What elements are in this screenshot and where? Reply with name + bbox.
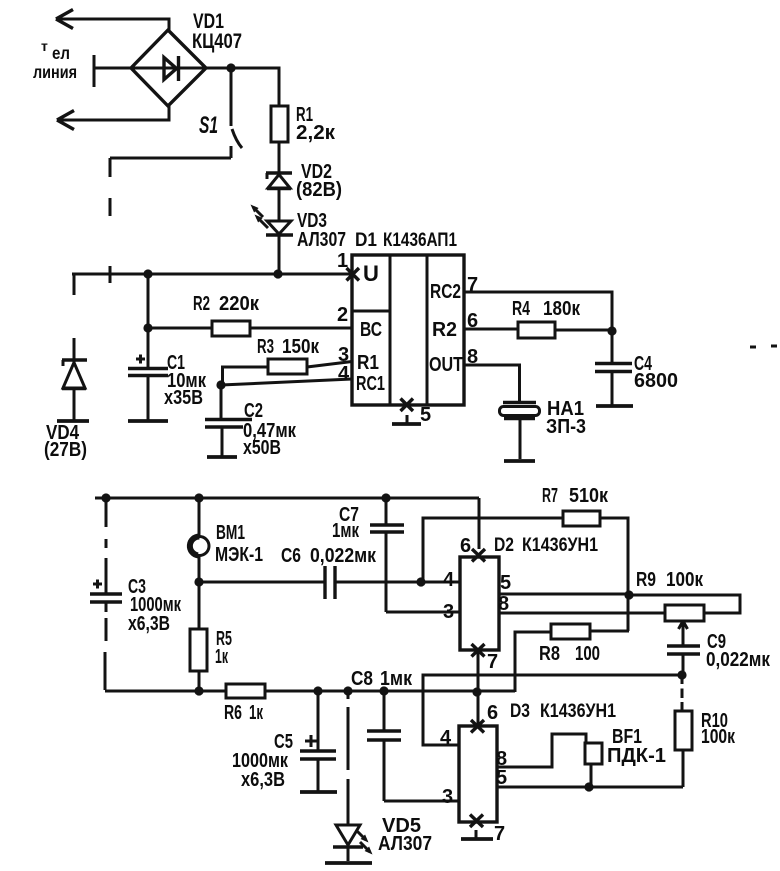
ground stub VD4	[57, 419, 89, 423]
label C7 1мк	[332, 504, 360, 542]
label R6 1k	[224, 702, 264, 724]
line terminal arrow (lower)	[57, 106, 169, 130]
svg-text:2,2к: 2,2к	[296, 122, 336, 144]
resistor R4	[518, 322, 555, 338]
svg-text:R9: R9	[636, 569, 656, 591]
LED VD5	[333, 691, 373, 861]
svg-text:МЭК-1: МЭК-1	[215, 544, 263, 566]
svg-text:S1: S1	[199, 112, 218, 139]
wire R4 to C4 node	[555, 329, 612, 332]
svg-text:R1: R1	[357, 352, 379, 374]
label C3 1000мк х6,3В	[128, 576, 182, 635]
svg-text:R6: R6	[224, 702, 242, 724]
svg-text:D2: D2	[494, 534, 514, 556]
svg-text:7: 7	[494, 823, 505, 845]
svg-text:ВС: ВС	[360, 319, 382, 341]
label R4 180k	[512, 298, 581, 320]
label VD2 (82В)	[296, 161, 342, 201]
label C9 0.022мк	[706, 631, 771, 671]
ground stub C1	[128, 419, 168, 423]
capacitor C6	[325, 566, 335, 599]
svg-text:100: 100	[575, 643, 600, 665]
bridge rectifier VD1	[131, 30, 206, 106]
wire pin 7 to C4 node	[464, 292, 612, 331]
svg-text:R7: R7	[542, 485, 558, 507]
wire R2 left	[148, 327, 212, 330]
wire pin 8 of D2 to R9	[499, 612, 665, 615]
wire lower top rail	[95, 497, 479, 500]
wire junction to pin 4	[221, 379, 352, 385]
node VD5	[343, 686, 352, 695]
node C1 branch junction	[143, 269, 152, 278]
capacitor C9	[667, 646, 700, 675]
pin 6 mark D3	[471, 702, 498, 733]
svg-text:R8: R8	[539, 643, 560, 665]
svg-text:4: 4	[443, 569, 455, 591]
label R8 100	[539, 643, 600, 665]
capacitor C4	[595, 331, 632, 405]
pin 7 mark D3	[470, 815, 505, 846]
svg-text:220к: 220к	[219, 293, 260, 315]
wire R7 right leg down	[600, 518, 628, 631]
wire R1 to VD2	[278, 142, 281, 174]
svg-text:ЗП-3: ЗП-3	[546, 416, 586, 438]
amplifier D2	[460, 557, 499, 650]
wire R7 feedback left leg	[423, 518, 563, 582]
line terminal arrow (upper)	[56, 10, 169, 31]
node bridge plus	[226, 63, 235, 72]
node R3/C2/pin4 junction	[216, 380, 225, 389]
svg-text:1к: 1к	[249, 702, 264, 724]
svg-text:OUT: OUT	[429, 354, 463, 376]
svg-text:линия: линия	[33, 62, 77, 82]
wire pin 6 to R4	[464, 328, 518, 331]
wire pin 8 to HA1	[464, 365, 520, 402]
op-amp/IC D1 box	[352, 255, 464, 405]
svg-text:150к: 150к	[282, 336, 320, 358]
wire pin4 feedback line	[423, 675, 682, 745]
svg-text:1мк: 1мк	[380, 668, 413, 690]
resistor R9 (trimmer)	[665, 605, 704, 621]
svg-text:(82В): (82В)	[296, 179, 342, 201]
capacitor C3	[90, 498, 122, 690]
svg-text:КЦ407: КЦ407	[192, 30, 242, 53]
svg-text:х6,3В: х6,3В	[128, 613, 170, 635]
microphone BM1	[190, 498, 209, 629]
svg-text:R3: R3	[257, 336, 274, 358]
label R9 100k	[636, 569, 704, 591]
svg-text:К1436УН1: К1436УН1	[522, 534, 598, 556]
Тел линия label	[33, 38, 77, 82]
label VD3 АЛ307	[297, 210, 346, 251]
label VD4 (27В)	[44, 422, 87, 461]
svg-text:ВМ1: ВМ1	[216, 522, 245, 544]
capacitor C5	[300, 691, 336, 791]
svg-text:5: 5	[420, 404, 431, 426]
resistor R10	[675, 675, 692, 787]
node C5	[313, 686, 322, 695]
node VD3-rail junction	[273, 269, 282, 278]
telephone line terminal	[94, 55, 133, 87]
svg-text:5: 5	[500, 572, 511, 594]
scan marks right edge	[750, 346, 777, 347]
label C2 0.47мк х50В	[243, 400, 297, 459]
svg-text:С2: С2	[244, 400, 263, 422]
wire R8 from rail corner	[515, 632, 551, 692]
svg-text:R4: R4	[512, 298, 531, 320]
sounder HA1	[500, 403, 540, 460]
pin 1 mark	[337, 250, 359, 281]
node R7/pin5 junction	[624, 590, 633, 599]
label R3 150k	[257, 336, 320, 358]
svg-text:(27В): (27В)	[44, 439, 87, 461]
svg-text:3: 3	[443, 601, 454, 623]
wire main rail to D1 pin 1	[72, 273, 351, 276]
switch S1	[110, 70, 242, 283]
svg-text:U: U	[363, 261, 379, 286]
svg-text:180к: 180к	[543, 298, 581, 320]
earphone BF1	[585, 743, 602, 787]
wire R5 to rail	[198, 671, 201, 691]
svg-text:0,022мк: 0,022мк	[706, 649, 771, 671]
wire C7 to pin 3 of D2	[386, 611, 460, 614]
label BM1 МЭК-1	[215, 522, 263, 566]
svg-text:АЛ307: АЛ307	[297, 229, 346, 251]
svg-text:х35В: х35В	[164, 387, 203, 409]
wire pin 5 of D3 output	[497, 786, 683, 789]
label C6 0.022мк	[281, 545, 377, 567]
svg-text:6: 6	[460, 535, 471, 557]
svg-text:0,022мк: 0,022мк	[310, 545, 377, 567]
svg-text:х50В: х50В	[243, 437, 281, 459]
svg-text:К1436АП1: К1436АП1	[383, 229, 457, 251]
ground stub D3 pin 7	[461, 837, 493, 841]
IC D1 internal labels	[356, 261, 463, 395]
svg-text:RC2: RC2	[430, 281, 461, 303]
svg-text:АЛ307: АЛ307	[378, 833, 432, 855]
svg-text:х6,3В: х6,3В	[241, 769, 285, 791]
wire C1/R2 branch vertical	[147, 274, 150, 368]
wire VD2 to VD3	[278, 189, 281, 221]
svg-text:4: 4	[440, 727, 452, 749]
wire pin5 node to R9 right	[629, 595, 740, 613]
wire bottom rail right	[265, 690, 515, 693]
resistor R3	[268, 359, 307, 374]
wire C6 to pin 4 of D2	[335, 581, 460, 584]
pin 7 mark D2	[472, 644, 499, 673]
node R7 branch on pin4 wire	[416, 577, 425, 586]
label D1 К1436АП1	[355, 229, 457, 251]
svg-text:ел: ел	[52, 43, 70, 63]
resistor R7	[563, 511, 600, 526]
ground stub VD5	[325, 861, 372, 865]
wire D2 pin7 to D3 pin6	[477, 650, 480, 726]
svg-text:D1: D1	[355, 229, 377, 251]
pin 5 mark	[401, 399, 432, 427]
svg-text:100к: 100к	[701, 726, 736, 748]
node R2 junction	[143, 323, 152, 332]
amplifier D3	[459, 726, 497, 822]
node C8	[379, 686, 388, 695]
wire bottom rail left	[105, 690, 226, 693]
label C8 1мк	[351, 668, 413, 690]
wire bridge output to R1	[206, 68, 279, 106]
wire R2 to pin 2	[250, 327, 352, 330]
node BF1 bottom	[584, 782, 593, 791]
node rail left	[101, 493, 110, 502]
svg-text:R2: R2	[432, 319, 457, 341]
resistor R2	[212, 321, 250, 336]
pin 6 mark D2	[460, 535, 485, 562]
svg-text:100к: 100к	[666, 569, 704, 591]
svg-text:1к: 1к	[215, 646, 229, 668]
zener diode VD2	[266, 173, 292, 189]
label HA1 ЗП-3	[546, 398, 586, 438]
capacitor C8	[367, 691, 401, 801]
zener diode VD4	[62, 274, 87, 420]
wire rail corner down to pin 6 of D2	[478, 498, 481, 549]
svg-text:С8: С8	[351, 668, 373, 690]
node C6 junction	[194, 577, 203, 586]
ground stub HA1	[504, 459, 535, 463]
ground stub C5	[300, 790, 337, 794]
ground stub C4	[596, 404, 633, 408]
capacitor C2	[205, 385, 252, 456]
label VD1 КЦ407	[192, 10, 242, 53]
resistor R6	[226, 684, 265, 698]
svg-text:С6: С6	[281, 545, 301, 567]
svg-text:К1436УН1: К1436УН1	[540, 700, 616, 722]
svg-text:R2: R2	[193, 293, 210, 315]
svg-text:RC1: RC1	[356, 373, 385, 395]
svg-text:т: т	[41, 38, 48, 54]
resistor R5	[190, 629, 207, 671]
wire C6 left	[199, 581, 325, 584]
resistor R8	[551, 624, 590, 639]
svg-text:7: 7	[487, 651, 498, 673]
label R1 2.2k	[296, 104, 336, 144]
node C9/R10 junction	[677, 670, 686, 679]
node R5 bottom	[194, 686, 203, 695]
wire R3 left to C2 junction	[223, 367, 269, 385]
ground stub C2	[207, 455, 237, 459]
node R4/C4 junction	[607, 326, 616, 335]
node BM1 branch	[194, 493, 203, 502]
label R2 220k	[193, 293, 260, 315]
label D2 К1436УН1	[494, 534, 598, 556]
wire pin 8 of D3 to BF1	[497, 734, 586, 767]
label R7 510k	[542, 485, 609, 507]
svg-text:ПДК-1: ПДК-1	[607, 745, 666, 767]
svg-text:6800: 6800	[634, 370, 678, 392]
wire R3 to pin 3	[307, 362, 352, 368]
label C1 10мк х35В	[164, 352, 207, 409]
svg-text:1мк: 1мк	[332, 520, 360, 542]
capacitor C7	[370, 498, 404, 612]
wire pin 5 of D2	[499, 593, 629, 596]
svg-text:D3: D3	[510, 700, 530, 722]
LED VD3	[251, 205, 294, 236]
svg-text:6: 6	[487, 702, 498, 724]
node C7 branch	[381, 493, 390, 502]
resistor R1	[271, 106, 288, 142]
wire VD3 to rail	[278, 235, 281, 274]
svg-text:510к: 510к	[569, 485, 609, 507]
trimmer wiper arrow	[679, 621, 688, 646]
capacitor C1	[128, 355, 168, 421]
label D3 К1436УН1	[510, 700, 616, 722]
svg-text:4: 4	[338, 363, 350, 385]
label R10 100k	[701, 710, 736, 748]
svg-text:3: 3	[442, 786, 453, 808]
label VD5 АЛ307	[378, 815, 432, 855]
label C4 6800	[634, 353, 678, 392]
wire R8 right to R7 leg	[590, 630, 629, 633]
label R5 1k	[215, 628, 232, 668]
node D2-D3 link on rail	[472, 687, 481, 696]
ground stub D1 pin 5	[392, 422, 421, 426]
wire C8 to pin 3 of D3	[384, 800, 459, 803]
label BF1 ПДК-1	[607, 726, 666, 767]
svg-text:2: 2	[337, 304, 348, 326]
label C5 1000мк х6,3В	[232, 731, 293, 791]
